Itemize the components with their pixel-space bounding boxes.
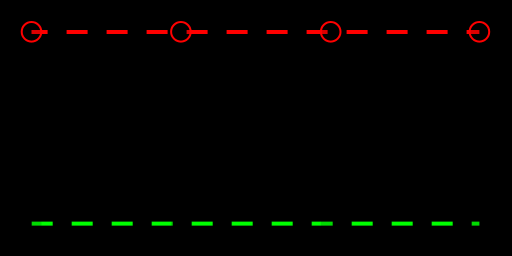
green dashed series line xyxy=(32,222,480,226)
red marker 3 face xyxy=(321,22,341,42)
red dashed series line xyxy=(32,30,480,34)
red marker 4 face xyxy=(469,22,489,42)
red marker 2 ring xyxy=(171,22,191,42)
red marker 4 ring xyxy=(470,22,490,42)
red marker 3 ring xyxy=(321,22,341,42)
green marker face 3 xyxy=(321,214,341,234)
red marker 1 face xyxy=(22,22,42,42)
green marker face 4 xyxy=(469,214,489,234)
red marker 1 ring xyxy=(22,22,42,42)
green marker face 1 xyxy=(22,214,42,234)
red marker 2 face xyxy=(171,22,191,42)
green marker face 2 xyxy=(171,214,191,234)
